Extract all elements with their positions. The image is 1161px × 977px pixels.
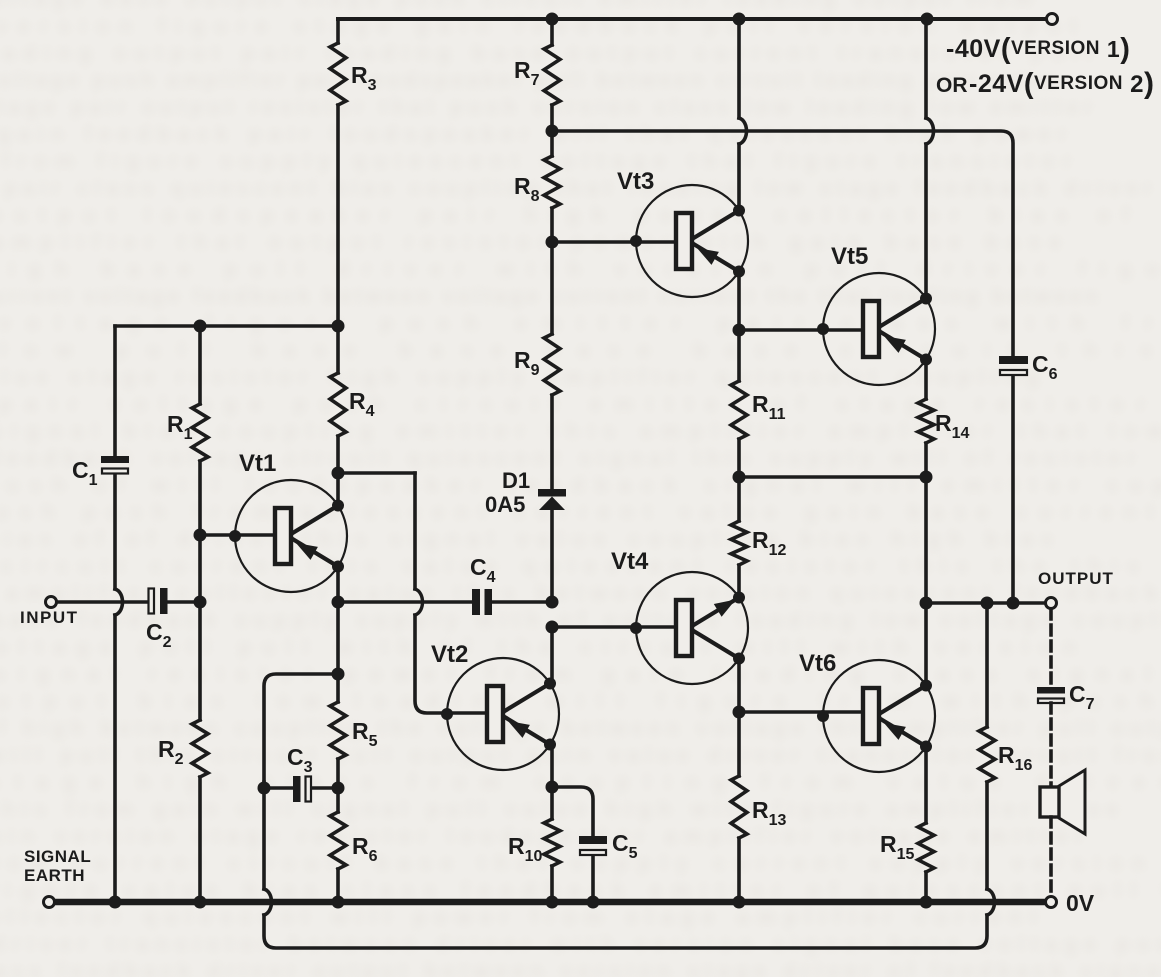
transistor Vt5 (817, 273, 935, 385)
wire earth rail (SIGNAL EARTH to 0V) (56, 899, 1045, 906)
node Vt6 collector column / output (920, 597, 933, 610)
resistor R2 (192, 720, 208, 777)
node earth rail R10 bottom (546, 896, 559, 909)
svg-text:0V: 0V (1066, 890, 1095, 916)
wire R14 column top (924, 19, 928, 118)
node earth rail R6 bottom (332, 896, 345, 909)
crossover hop C1 column over input wire (115, 589, 123, 615)
wire C1 column lower (113, 474, 117, 589)
resistor R4 (330, 373, 346, 436)
wire C1 column to earth (113, 615, 117, 902)
node Vt2 emitter / R10 / C5 junction (546, 781, 559, 794)
wire R2 bottom lead (198, 777, 202, 902)
node R13 top / Vt6 base branch (733, 706, 746, 719)
wire R7 bottom lead (550, 105, 554, 156)
node supply rail / R7 junction (546, 13, 559, 26)
node R3/R4 junction (332, 320, 345, 333)
svg-text:Vt4: Vt4 (611, 548, 649, 575)
resistor R8 (544, 156, 560, 208)
node earth rail C5 bottom (587, 896, 600, 909)
wire C2 to Vt1 base node (168, 600, 200, 604)
node R5/R6 junction (332, 782, 345, 795)
svg-text:INPUT: INPUT (20, 608, 79, 627)
diode D1 0A5 (538, 489, 566, 510)
wire Vt2 emitter to R10 (550, 745, 554, 819)
svg-text:Vt5: Vt5 (831, 243, 868, 270)
transistor Vt3 (630, 185, 748, 297)
node R11 top / Vt5 base branch (733, 324, 746, 337)
svg-text:0A5: 0A5 (485, 492, 525, 517)
wire Vt6 base lead from R13 column (739, 710, 863, 714)
wire R3 top lead (336, 19, 340, 43)
resistor R1 (192, 404, 208, 461)
resistor R5 (330, 702, 346, 759)
terminal OUTPUT (1046, 598, 1057, 609)
resistor R16 (979, 727, 995, 782)
resistor R9 (544, 334, 560, 395)
capacitor C7 (1037, 687, 1065, 703)
resistor R3 (330, 43, 346, 105)
wire dashed C7 to speaker (1049, 703, 1053, 787)
node R14 bottom junction (920, 471, 933, 484)
crossover hop R16 column over earth rail (987, 889, 995, 915)
wire second rail (R7/R8 junction to C6 branch) (552, 131, 1013, 356)
svg-text:SIGNAL: SIGNAL (24, 847, 91, 866)
wire R5 to C3 node (336, 759, 340, 812)
wire R14 column to Vt5 collector (924, 144, 928, 298)
node C2 / R1R2 / base column junction (194, 596, 207, 609)
wire bootstrap node to Vt2 collector (550, 627, 554, 684)
wire negative supply top rail (338, 17, 1046, 21)
wire Vt4 base lead from D1 node (552, 625, 677, 629)
wire input coupling (INPUT to C2) (57, 600, 148, 604)
wire R1 column top (198, 326, 202, 404)
transistor Vt4 (630, 572, 748, 684)
wire dashed output to load (upper) (1049, 609, 1053, 686)
svg-text:EARTH: EARTH (24, 866, 85, 885)
wire R11 bottom lead (737, 439, 741, 521)
wire R12 to Vt4 top (737, 565, 741, 598)
wire R9 to D1 (550, 395, 554, 489)
wire Vt6 emitter to R15 (924, 747, 928, 823)
wire feedback bottom run (264, 915, 987, 948)
node R5 top / Vt1 emitter chain (332, 668, 345, 681)
resistor R14 (918, 399, 934, 443)
node earth rail R2 bottom (194, 896, 207, 909)
wire Vt4 bottom to R13 (737, 658, 741, 776)
node earth rail R15 bottom (920, 896, 933, 909)
node R7/R8 junction (546, 125, 559, 138)
wire C3 left lead (264, 786, 293, 790)
svg-text:voltage base output stage push: voltage base output stage push circuit e… (0, 0, 1032, 11)
capacitor C3 (293, 776, 311, 802)
crossover hop R11 column over second rail (739, 118, 747, 144)
resistor R6 (330, 812, 346, 869)
wire R3 bottom long lead (336, 105, 340, 373)
wire Vt2 base link vertical (413, 473, 417, 589)
terminal SIGNAL EARTH (44, 897, 55, 908)
wire R11 column top (737, 19, 741, 118)
wire C1 column upper (113, 326, 117, 456)
node supply rail / R14-column junction (921, 13, 934, 26)
wire Vt3 base from R8/R9 junction (552, 240, 677, 244)
node C6 bottom / output (1007, 597, 1020, 610)
node feedback column / C3 (258, 782, 271, 795)
svg-text:feedback voltage circuit quies: feedback voltage circuit quiescent signa… (0, 447, 1135, 470)
wire dashed speaker to 0V (1049, 817, 1053, 896)
wire Vt1 collector to Vt2 base link (top) (338, 471, 415, 475)
wire R7 top lead (550, 19, 554, 45)
wire R13 bottom lead (737, 838, 741, 902)
capacitor C2 (149, 588, 168, 614)
wire C4 to bootstrap node (492, 600, 552, 604)
capacitor C6 (999, 356, 1028, 375)
wire Vt5 emitter to R14 (924, 360, 928, 399)
wire output node to OUTPUT terminal (926, 601, 1046, 605)
wire C3 right lead (312, 786, 338, 790)
wire D1 to bootstrap node (550, 510, 554, 602)
wire R4 bottom lead (336, 436, 340, 505)
svg-text:Vt6: Vt6 (799, 650, 836, 677)
node C4 / D1 bottom junction (546, 596, 559, 609)
wire C5 bottom lead (591, 856, 595, 902)
wire Vt1 emitter to signal node (336, 567, 340, 702)
wire R16 top lead (985, 603, 989, 727)
wire C5 branch (552, 787, 593, 836)
capacitor C4 (472, 589, 492, 615)
wire R1 bottom to base node (198, 461, 202, 720)
resistor R12 (731, 521, 747, 565)
crossover hop Vt2-link over C4 wire (415, 589, 423, 615)
svg-text:OUTPUT: OUTPUT (1038, 569, 1114, 588)
wire Vt1 emitter node to C4 (338, 600, 472, 604)
resistor R7 (544, 45, 560, 105)
wire Vt5 base lead from R11 column (739, 328, 863, 332)
node R8/R9 junction (546, 236, 559, 249)
wire R11 bottom to R14 bottom (739, 475, 926, 479)
resistor R10 (544, 819, 560, 866)
node supply rail / R11-column junction (733, 13, 746, 26)
node Vt4 base wire junction (546, 621, 559, 634)
wire bias line C1/R1 to R3/R4 junction (115, 324, 338, 328)
transistor Vt2 (441, 658, 559, 770)
wire Vt3 emitter to R11 (737, 272, 741, 381)
svg-text:D1: D1 (502, 468, 530, 493)
capacitor C5 (579, 836, 607, 855)
node base bias divider junction (194, 529, 207, 542)
wire R16 bottom lead (985, 782, 989, 889)
terminal -40V/-24V supply (1047, 14, 1058, 25)
wire R8 bottom lead (550, 208, 554, 334)
svg-text:OR: OR (936, 74, 968, 97)
capacitor C1 (101, 456, 129, 474)
wire feedback to R5 top (264, 674, 338, 782)
wire Vt2 base link lower + base lead (415, 615, 488, 713)
wire R10 bottom lead (550, 866, 554, 902)
wire R14 bottom to output node (924, 443, 928, 686)
wire feedback column lower (262, 782, 266, 889)
wire R15 bottom lead (924, 872, 928, 902)
node R16 top / output (981, 597, 994, 610)
node earth rail R13 bottom (733, 896, 746, 909)
node R11/R12 junction (733, 471, 746, 484)
svg-text:Vt1: Vt1 (239, 450, 276, 477)
wire C6 bottom to output node (1011, 375, 1015, 603)
svg-text:Vt2: Vt2 (431, 641, 468, 668)
resistor R15 (918, 823, 934, 872)
resistor R11 (731, 381, 747, 439)
wire Vt1 base lead (200, 533, 276, 537)
node Vt1 collector / R4 bottom branch (332, 467, 345, 480)
wire R6 bottom lead (336, 869, 340, 902)
node Vt1 emitter column / signal wire (332, 596, 345, 609)
wire R11 column to Vt3 collector (737, 144, 741, 211)
crossover hop feedback column over earth rail (264, 889, 272, 915)
resistor R13 (731, 776, 747, 838)
loudspeaker (1040, 770, 1085, 834)
svg-text:Vt3: Vt3 (617, 168, 654, 195)
transistor Vt1 (229, 480, 347, 592)
node earth rail C1 column (109, 896, 122, 909)
node R1 top (194, 320, 207, 333)
crossover hop R14 column over second rail (926, 118, 934, 144)
terminal INPUT (46, 597, 57, 608)
terminal 0V (1046, 897, 1057, 908)
transistor Vt6 (817, 660, 935, 772)
